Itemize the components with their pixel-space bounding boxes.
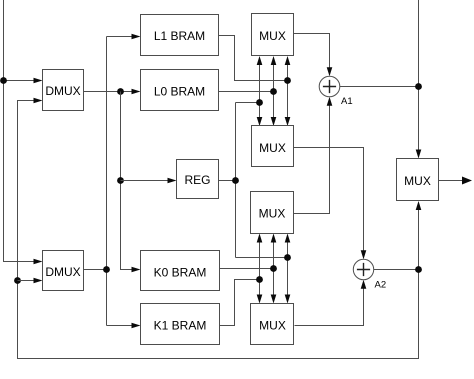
- wire: right MUX output to edge: [439, 180, 464, 182]
- node: junction L1 feed on top bundle wire 3: [284, 77, 291, 84]
- wire: branch to REG input: [121, 180, 171, 182]
- block DMUX (top): [43, 70, 84, 111]
- node: junction on feedback wire at DMUX2 input 2: [14, 277, 21, 284]
- wire: bottom bundle wire 2: [273, 239, 275, 298]
- node: junction A1 output on right net: [415, 83, 422, 90]
- arrowhead into L0 BRAM: [132, 89, 141, 95]
- wire: K0 BRAM output to bottom bundle wire 2: [220, 268, 274, 270]
- arrowheads up into MUX1 bottom: [257, 56, 263, 65]
- arrowhead into L1 BRAM: [132, 34, 141, 40]
- wire: bottom bundle wire 3: [287, 239, 289, 298]
- wire: left input bus vertical from top edge to DMUX2 input 1: [4, 0, 35, 262]
- arrowhead into DMUX1 input 2: [34, 98, 43, 104]
- block MUX3: [251, 192, 294, 234]
- wire: DMUX1 net down to K0 BRAM: [121, 92, 135, 270]
- wire: top bundle wire 3: [287, 62, 289, 121]
- wire: MUX2 output to adder A2 top: [294, 148, 364, 254]
- svg-text:MUX: MUX: [259, 207, 286, 221]
- wire: MUX4 output to adder A2 bottom: [295, 286, 364, 326]
- block DMUX (bottom): [43, 251, 84, 291]
- arrowhead into K1 BRAM: [132, 323, 141, 329]
- svg-text:A2: A2: [375, 280, 387, 291]
- adder A1: [319, 76, 352, 107]
- wire: DMUX2 output vertical net (up to L1 BRAM, down to K1 BRAM): [84, 37, 135, 326]
- block L1 BRAM: [141, 15, 219, 56]
- svg-text:A1: A1: [341, 96, 353, 107]
- svg-text:K1 BRAM: K1 BRAM: [154, 318, 207, 332]
- wire: MUX3 output to adder A1 bottom: [294, 103, 330, 214]
- node: junction REG output: [232, 177, 239, 184]
- wire: feedback up-branch into right MUX bottom: [418, 207, 420, 270]
- svg-text:MUX: MUX: [259, 141, 286, 155]
- wire: REG output net (to top bundle wire 1 and bottom bundle wire 3): [219, 103, 288, 258]
- arrowhead down into right MUX top: [416, 150, 422, 159]
- wire: branch from left bus to DMUX1 input 1: [4, 80, 35, 82]
- arrowhead up into right MUX bottom: [416, 201, 422, 210]
- wire: L0 BRAM output to top bundle wire 2: [219, 91, 274, 93]
- wire: A2 output to right net: [374, 269, 419, 271]
- arrowhead up into A1 bottom: [327, 97, 333, 106]
- svg-text:REG: REG: [184, 173, 210, 187]
- arrowhead into REG: [168, 178, 177, 184]
- arrowhead into DMUX2 input 1: [34, 259, 43, 265]
- svg-text:MUX: MUX: [259, 29, 286, 43]
- node: junction on left bus at DMUX1 input: [0, 77, 7, 84]
- arrowhead into K0 BRAM: [132, 267, 141, 273]
- wire: L1 BRAM output to top bundle wire 3: [219, 36, 288, 81]
- wire: A2 feedback net (down from A2 output junction, along bottom, up left side to DMUX1 input 2): [18, 101, 419, 359]
- node: junction L0 feed on top bundle wire 2: [270, 88, 277, 95]
- svg-text:MUX: MUX: [404, 174, 431, 188]
- node: junction REG feed on top bundle wire 1: [256, 99, 263, 106]
- block L0 BRAM: [141, 70, 219, 111]
- node: junction A2 output on right net: [415, 266, 422, 273]
- block MUX (right output): [397, 159, 439, 201]
- wire: branch from feedback wire to DMUX2 input 2: [18, 280, 35, 282]
- arrowhead up into A2 bottom: [361, 280, 367, 289]
- wire: bottom bundle wire 1 (MUX3 bottom to MUX4 top): [259, 239, 261, 298]
- block MUX1 (top): [252, 14, 294, 56]
- wire: top bundle wire 2: [273, 62, 275, 121]
- svg-text:L0 BRAM: L0 BRAM: [154, 85, 205, 99]
- arrowheads down into MUX2 top: [257, 117, 263, 126]
- arrowhead into DMUX2 input 2: [34, 278, 43, 284]
- node: junction DMUX1 net at REG level: [117, 177, 124, 184]
- node: junction REG feed on bottom bundle wire 3: [284, 254, 291, 261]
- node: junction K0 feed on bottom bundle wire 2: [270, 265, 277, 272]
- svg-text:DMUX: DMUX: [45, 84, 80, 98]
- block MUX2: [252, 126, 294, 167]
- wire: top bundle wire 1 (MUX1 bottom to MUX2 top): [259, 62, 261, 121]
- node: junction K1 feed on bottom bundle wire 1: [256, 276, 263, 283]
- wire: MUX1 output to adder A1 top: [294, 34, 330, 71]
- block MUX4 (bottom): [251, 304, 294, 345]
- wire: right vertical net from top edge down into right MUX top: [418, 0, 420, 153]
- node: junction DMUX2 output: [103, 266, 110, 273]
- arrowheads up into MUX3 bottom: [257, 234, 263, 243]
- node: junction DMUX1 output: [117, 88, 124, 95]
- arrowheads down into MUX4 top: [257, 295, 263, 304]
- svg-text:MUX: MUX: [259, 318, 286, 332]
- wire: DMUX1 output to L0 BRAM: [84, 91, 135, 93]
- svg-text:DMUX: DMUX: [45, 265, 80, 279]
- svg-text:L1 BRAM: L1 BRAM: [154, 29, 205, 43]
- block REG: [177, 160, 219, 199]
- svg-text:K0 BRAM: K0 BRAM: [154, 265, 207, 279]
- block K0 BRAM: [141, 251, 220, 291]
- block K1 BRAM: [141, 304, 220, 345]
- arrowhead final output: [462, 177, 472, 185]
- arrowhead down into A1 top: [327, 67, 333, 76]
- arrowhead down into A2 top: [361, 250, 367, 259]
- adder A2: [353, 259, 386, 290]
- wire: A1 output to right vertical net: [340, 86, 419, 88]
- wire: K1 BRAM output to bottom bundle wire 1: [220, 280, 260, 326]
- arrowhead into DMUX1 input 1: [34, 78, 43, 84]
